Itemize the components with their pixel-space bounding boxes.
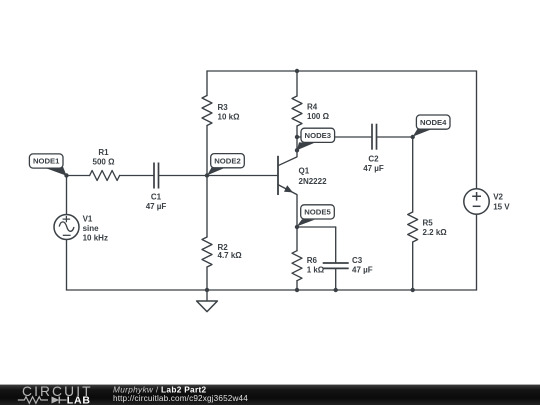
footer logo CIRCUIT bbox=[22, 384, 93, 399]
resistor R6 bbox=[292, 251, 325, 281]
svg-text:NODE1: NODE1 bbox=[33, 157, 60, 166]
resistor R4 bbox=[292, 96, 330, 126]
node junction dots bbox=[64, 69, 415, 292]
capacitor C2 bbox=[363, 124, 384, 173]
footer logo zigzag diode symbol bbox=[18, 397, 67, 404]
footer bar bbox=[0, 384, 540, 385]
svg-text:C2: C2 bbox=[368, 155, 379, 164]
source V1 bbox=[54, 214, 108, 242]
svg-text:4.7 kΩ: 4.7 kΩ bbox=[218, 251, 243, 260]
wire node3 horizontal to C2 bbox=[297, 136, 372, 138]
svg-text:R3: R3 bbox=[218, 103, 229, 112]
resistor R5 bbox=[408, 212, 448, 242]
wire node5 horizontal bbox=[297, 226, 336, 228]
wire V1 to bottom rail bbox=[66, 240, 68, 291]
transistor Q1 bbox=[278, 150, 327, 227]
svg-text:1 kΩ: 1 kΩ bbox=[307, 266, 325, 275]
svg-text:Q1: Q1 bbox=[299, 167, 310, 176]
svg-text:2N2222: 2N2222 bbox=[299, 177, 328, 186]
node NODE1 label bbox=[29, 154, 66, 176]
wire node5 down C3 branch bbox=[335, 227, 337, 263]
wire R2 to bottom rail bbox=[206, 267, 208, 290]
node NODE2 label bbox=[207, 154, 244, 176]
ground bbox=[197, 290, 218, 312]
svg-text:15 V: 15 V bbox=[493, 202, 510, 211]
svg-text:C1: C1 bbox=[151, 193, 162, 202]
svg-text:C3: C3 bbox=[352, 256, 363, 265]
wire R4 to collector bbox=[296, 126, 298, 150]
svg-text:500 Ω: 500 Ω bbox=[93, 157, 116, 166]
svg-text:R4: R4 bbox=[307, 102, 318, 111]
wire C1 to node2 to base bbox=[159, 175, 279, 177]
resistor R1 bbox=[90, 148, 120, 181]
svg-text:47 µF: 47 µF bbox=[363, 164, 384, 173]
svg-text:sine: sine bbox=[83, 224, 100, 233]
svg-text:http://circuitlab.com/c92xgj36: http://circuitlab.com/c92xgj3652w44 bbox=[113, 394, 248, 403]
svg-text:100 Ω: 100 Ω bbox=[307, 112, 330, 121]
svg-text:NODE4: NODE4 bbox=[420, 118, 447, 127]
wire R6 to bottom rail bbox=[296, 281, 298, 290]
svg-text:47 µF: 47 µF bbox=[352, 266, 373, 275]
resistor R3 bbox=[202, 96, 240, 126]
wire R3 to node2 bbox=[206, 126, 208, 177]
footer title bbox=[113, 385, 207, 395]
wire R1 to C1 bbox=[120, 175, 154, 177]
wire R5 to bottom rail bbox=[412, 242, 414, 290]
svg-text:NODE2: NODE2 bbox=[214, 156, 241, 165]
wire C2 to node4 bbox=[377, 136, 413, 138]
svg-text:NODE5: NODE5 bbox=[304, 208, 331, 217]
svg-text:V1: V1 bbox=[83, 214, 93, 223]
node NODE5 label bbox=[297, 205, 335, 227]
node NODE3 label bbox=[297, 128, 335, 150]
svg-text:R5: R5 bbox=[423, 218, 434, 227]
footer logo LAB bbox=[67, 394, 91, 405]
wire top rail to R4 bbox=[296, 71, 298, 96]
wire top rail bbox=[207, 70, 477, 72]
svg-text:R6: R6 bbox=[307, 256, 318, 265]
wire node4 down to R5 bbox=[412, 137, 414, 212]
svg-text:10 kΩ: 10 kΩ bbox=[218, 113, 241, 122]
svg-text:R1: R1 bbox=[98, 148, 109, 157]
svg-text:2.2 kΩ: 2.2 kΩ bbox=[423, 228, 448, 237]
wire node2 down to R2 bbox=[206, 176, 208, 238]
resistor R2 bbox=[202, 237, 242, 267]
wire bottom rail bbox=[67, 289, 477, 291]
capacitor C1 bbox=[146, 163, 167, 212]
wire V2 to bottom rail bbox=[476, 214, 478, 290]
capacitor C3 bbox=[323, 256, 373, 275]
footer url bbox=[113, 394, 248, 403]
wire R3 branch top bbox=[206, 71, 208, 96]
wire input main bbox=[67, 175, 90, 177]
wire node5 down to R6 bbox=[296, 227, 298, 251]
wire C3 to bottom rail bbox=[335, 268, 337, 290]
svg-text:47 µF: 47 µF bbox=[146, 202, 167, 211]
svg-text:LAB: LAB bbox=[67, 394, 91, 405]
wire top rail to V2 bbox=[476, 71, 478, 189]
svg-text:10 kHz: 10 kHz bbox=[83, 234, 108, 243]
wire node1 down to V1 bbox=[66, 176, 68, 215]
source V2 bbox=[464, 189, 511, 214]
svg-text:V2: V2 bbox=[493, 193, 503, 202]
node NODE4 label bbox=[413, 115, 450, 137]
svg-text:NODE3: NODE3 bbox=[305, 131, 332, 140]
